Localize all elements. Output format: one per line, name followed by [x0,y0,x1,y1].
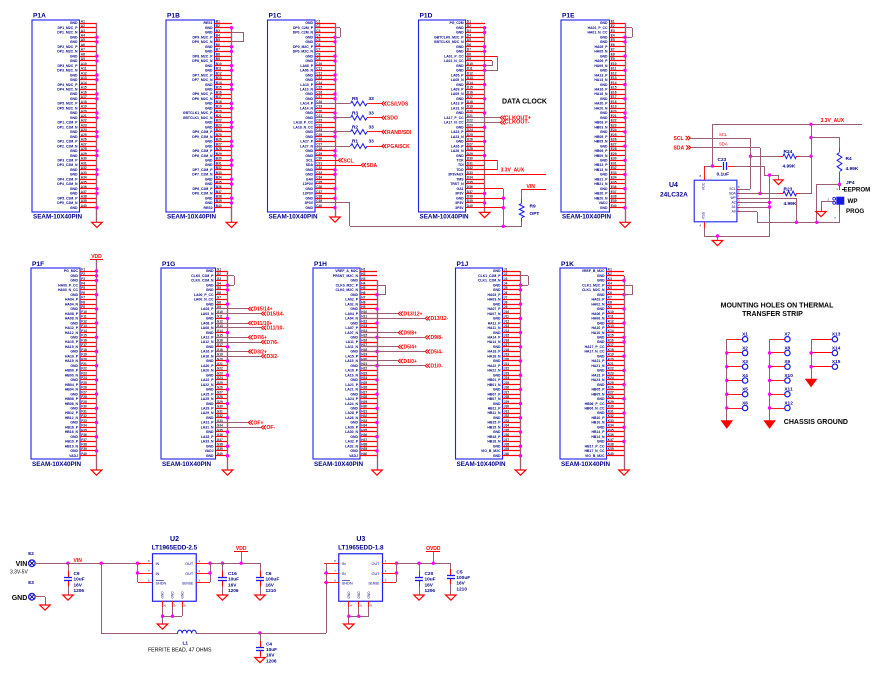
svg-text:E3: E3 [28,580,34,585]
svg-text:R23: R23 [784,187,793,193]
svg-text:VREF_B_M2C: VREF_B_M2C [582,269,605,273]
svg-text:X14: X14 [832,345,841,351]
svg-text:HA03_N: HA03_N [487,298,501,302]
svg-text:D5/4-: D5/4- [431,349,444,355]
svg-text:GND: GND [357,591,361,599]
svg-text:GBTCLK1_M2C_P: GBTCLK1_M2C_P [183,111,213,115]
svg-text:GND: GND [350,378,358,382]
terminal E2 VIN [10,551,35,576]
svg-text:HA15_N: HA15_N [65,345,79,349]
svg-text:HA08_P: HA08_P [65,312,79,316]
svg-text:D27: D27 [467,142,473,146]
svg-text:D16: D16 [467,90,473,94]
svg-text:HA01_N_CC: HA01_N_CC [587,31,608,35]
svg-text:GND: GND [205,88,213,92]
svg-text:DP4_C2M_N: DP4_C2M_N [57,182,78,186]
wire P1B ground bus [231,28,233,222]
svg-text:LA18_P_CC: LA18_P_CC [294,121,314,125]
svg-text:HB05_P: HB05_P [595,135,609,139]
svg-text:SEAM-10X40PIN: SEAM-10X40PIN [167,214,216,221]
svg-text:LA26_N: LA26_N [451,149,464,153]
connector P1G (SEAM-10X40PIN) [161,261,223,468]
node label DATA CLOCK [502,99,547,106]
wire R4 to JP4 pin 1 [839,172,841,190]
svg-text:GND: GND [70,192,78,196]
svg-text:DP2_M2C_N: DP2_M2C_N [57,50,78,54]
svg-text:HA06_N: HA06_N [591,317,605,321]
svg-text:GND: GND [305,206,313,210]
svg-text:GND: GND [305,196,313,200]
connector P1B (SEAM-10X40PIN) [166,13,222,221]
svg-text:GA1: GA1 [457,187,464,191]
connector P1D (SEAM-10X40PIN) [419,13,473,221]
svg-text:HB05_N: HB05_N [594,140,608,144]
svg-text:DP1_M2C_N: DP1_M2C_N [57,31,78,35]
junction dots VDD rail [221,562,243,565]
svg-text:GND: GND [305,59,313,63]
svg-text:LA17_N_CC: LA17_N_CC [444,121,464,125]
svg-text:GND: GND [70,293,78,297]
junction dots P1K ground bus [622,279,625,443]
svg-text:C23: C23 [718,157,727,163]
ground P1H [372,470,382,475]
chassis ground [764,421,775,429]
wire U3 input bracket (from bottom rail) [326,563,328,633]
svg-text:LA07_N: LA07_N [345,331,358,335]
svg-text:LT1965EDD-1.8: LT1965EDD-1.8 [338,545,384,552]
svg-text:DP1_C2M_P: DP1_C2M_P [57,121,78,125]
power 3.3V_AUX rail (top right) [712,118,862,125]
svg-text:HA09_P: HA09_P [595,59,609,63]
svg-text:DATA CLOCK: DATA CLOCK [502,99,547,106]
svg-text:GND: GND [305,111,313,115]
svg-text:DP0_C2M_N: DP0_C2M_N [293,31,314,35]
svg-text:HB20_P: HB20_P [595,192,609,196]
wire U4 SCL pin to SCL net [740,189,750,191]
mounting hole X11 [784,387,793,397]
node D13/12+ flag [398,311,422,317]
mounting hole X3 [742,359,748,369]
svg-text:GND: GND [70,78,78,82]
svg-text:GND: GND [70,378,78,382]
junction dot SDA/R23 [758,192,761,195]
wire C23 right to ground [734,166,779,180]
svg-text:C4: C4 [266,642,272,648]
svg-text:B31: B31 [216,161,222,165]
svg-text:H31: H31 [361,409,367,413]
wire X10 stub [770,380,785,382]
svg-text:P1J: P1J [457,261,469,268]
power VDD flag (P1F) [90,254,103,260]
svg-text:DP4_M2C_P: DP4_M2C_P [57,83,78,87]
svg-text:GND: GND [493,302,501,306]
svg-text:DP1_C2M_N: DP1_C2M_N [57,125,78,129]
svg-text:GND: GND [600,21,608,25]
svg-text:LA14_P: LA14_P [300,102,313,106]
svg-text:SDO: SDO [387,116,398,122]
svg-text:GND: GND [70,364,78,368]
wire 3P3V net P1D pins D36 D38 D40 [466,189,504,227]
svg-text:HA16_N: HA16_N [594,92,608,96]
svg-text:LA32_N: LA32_N [345,444,358,448]
mounting hole X6 [742,400,748,410]
svg-text:GND: GND [70,130,78,134]
wire U4 SDA pin to SDA net [740,193,760,195]
svg-text:HA04_N: HA04_N [65,302,79,306]
wire P1H pin stubs H1-H40 [360,272,377,456]
junction dots chassis bus X13-X15 [809,351,812,368]
wire jumper bottom net [757,184,840,223]
svg-text:G12: G12 [217,319,223,323]
svg-text:HB16_P: HB16_P [65,426,79,430]
junction dot VSS ground [716,234,719,237]
svg-text:JP4: JP4 [846,180,855,186]
svg-text:D38: D38 [467,195,473,199]
svg-text:GND: GND [600,144,608,148]
svg-text:TRANSFER STRIP: TRANSFER STRIP [742,311,803,318]
svg-text:SDA: SDA [719,142,728,147]
svg-text:GND: GND [70,187,78,191]
svg-text:GND: GND [205,178,213,182]
svg-text:3P3V: 3P3V [305,201,314,205]
svg-text:4.99K: 4.99K [784,201,797,207]
svg-text:HB13_N: HB13_N [594,168,608,172]
svg-text:G1: G1 [217,267,221,271]
ground (C4) [255,658,265,663]
svg-text:16V: 16V [425,582,434,588]
ground P1F [91,470,102,475]
wire 3.3V_AUX drop to R24/R23 [811,124,813,194]
connector P1E (SEAM-10X40PIN) [561,13,617,221]
svg-text:HA10_N: HA10_N [591,331,605,335]
capacitor C4 10uF 16V 1206 [256,633,277,664]
svg-text:VIO_B_M2C: VIO_B_M2C [585,454,605,458]
svg-text:GND: GND [597,340,605,344]
svg-text:X6: X6 [742,400,748,406]
svg-text:33: 33 [369,139,375,145]
svg-text:C6: C6 [266,571,272,577]
svg-text:10uF: 10uF [228,577,239,583]
capacitor C16 10uF 16V 1206 [218,563,239,595]
svg-text:SEAM-10X40PIN: SEAM-10X40PIN [314,461,363,468]
mounting hole X9 [784,359,790,369]
wire D15/14+ (P1G pin G9) [216,308,248,310]
svg-text:3.3V-5V: 3.3V-5V [10,570,28,576]
svg-text:J27: J27 [504,390,510,394]
wire X8 stub [770,352,785,354]
junction dot C23 ground node [768,173,771,176]
svg-text:HA02_N: HA02_N [591,302,605,306]
node D3/2+ flag [248,349,267,355]
svg-text:X7: X7 [784,332,790,338]
svg-text:GND: GND [70,59,78,63]
wire P1F pin stubs F1-F40 [80,272,96,456]
svg-text:GND: GND [206,359,214,363]
svg-text:GBTCLK0_M2C_N: GBTCLK0_M2C_N [434,40,464,44]
svg-text:GND: GND [70,392,78,396]
svg-text:WP: WP [730,196,736,200]
resistor R9 OPT [519,203,539,217]
svg-text:LA09_N: LA09_N [451,92,464,96]
svg-text:DP2_C2M_N: DP2_C2M_N [57,144,78,148]
svg-text:DP6_M2C_P: DP6_M2C_P [192,92,213,96]
svg-text:SEAM-10X40PIN: SEAM-10X40PIN [33,214,82,221]
svg-text:SDA: SDA [674,146,685,152]
svg-text:LA15_N: LA15_N [345,359,358,363]
mounting hole X8 [784,345,790,355]
wire D5/4- (P1H pin H18) [360,351,425,353]
svg-text:D15/14-: D15/14- [267,311,285,317]
wire U4 WP pin to jumper net [740,198,797,222]
capacitor C20 10uF 16V 1206 [415,563,436,595]
ground (C5) [446,595,457,600]
svg-text:D13/12+: D13/12+ [404,311,423,317]
svg-text:F8: F8 [81,300,85,304]
svg-text:K1: K1 [608,267,612,271]
svg-text:C27: C27 [316,142,322,146]
svg-text:GND: GND [205,140,213,144]
svg-text:SEAM-10X40PIN: SEAM-10X40PIN [457,461,506,468]
wire P1E pin stubs E1-E40 [610,24,625,208]
svg-text:D1/0-: D1/0- [431,364,444,370]
wire chassis bus X1-X6 [726,339,728,421]
svg-text:HB10_N: HB10_N [591,421,605,425]
svg-text:E8: E8 [611,52,615,56]
svg-text:G8: G8 [217,300,221,304]
svg-text:H8: H8 [361,300,365,304]
svg-text:GND: GND [456,64,464,68]
svg-text:SEAM-10X40PIN: SEAM-10X40PIN [162,461,211,468]
power VDD flag [234,546,248,563]
svg-text:GND: GND [350,364,358,368]
svg-text:HB16_N: HB16_N [65,430,79,434]
svg-text:DP8_C2M_N: DP8_C2M_N [192,154,213,158]
svg-text:LA31_N: LA31_N [201,426,214,430]
svg-text:GND: GND [305,149,313,153]
svg-text:HB08_P: HB08_P [65,397,79,401]
node D9/8+ flag [398,330,417,336]
wire P1J ground bus [520,271,522,470]
wire P1K ground bus [624,276,626,470]
svg-text:HB03_P: HB03_P [595,121,609,125]
svg-text:J12: J12 [504,319,510,323]
svg-text:G16: G16 [217,338,223,342]
svg-text:D9/8-: D9/8- [431,335,444,341]
svg-text:HA23_P: HA23_P [592,373,606,377]
wire CLKOUT+ [466,117,500,119]
svg-text:VDD: VDD [236,546,247,552]
wire P1J pin stubs J1-J40 [502,272,520,456]
ground (E3) [40,605,50,610]
junction dots P1J ground bus [519,284,522,458]
svg-text:GND: GND [206,416,214,420]
svg-text:R24: R24 [784,149,793,155]
svg-text:GND: GND [161,591,165,599]
svg-text:GND: GND [70,111,78,115]
svg-text:HB10_P: HB10_P [592,416,606,420]
svg-text:LA13_P: LA13_P [451,102,464,106]
junction dots P1B ground bus [230,26,233,205]
svg-text:LA20_N: LA20_N [201,369,214,373]
svg-text:D31: D31 [467,161,473,165]
node label CHASSIS GROUND [784,419,848,426]
svg-text:3.3V_AUX: 3.3V_AUX [821,118,845,124]
wire P1C loop C2-C4 [335,28,341,38]
svg-text:SCL: SCL [306,159,313,163]
svg-text:GND: GND [70,407,78,411]
svg-text:GND: GND [350,279,358,283]
svg-text:LA23_N: LA23_N [451,135,464,139]
wire X15 stub [811,366,832,368]
ground (C6) [255,595,265,600]
svg-text:GND: GND [493,444,501,448]
svg-text:LA19_N: LA19_N [345,373,358,377]
svg-text:G31: G31 [217,409,223,413]
svg-text:LA22_P: LA22_P [201,378,214,382]
svg-text:GND: GND [305,21,313,25]
wire D7/6+ (P1G pin G15) [216,337,248,339]
junction dots P1D ground bus [483,26,486,205]
svg-text:E1: E1 [611,19,615,23]
svg-text:LA30_N: LA30_N [345,430,358,434]
ground P1A [92,222,103,227]
node CLKOUT+ flag [500,115,532,121]
svg-text:HB09_N: HB09_N [594,154,608,158]
svg-text:LA06_P: LA06_P [300,64,313,68]
wire D9/8+ (P1H pin H14) [360,332,398,334]
wire X11 stub [770,394,785,396]
svg-text:HA19_P: HA19_P [65,354,79,358]
svg-text:GND: GND [597,440,605,444]
svg-text:GND: GND [350,321,358,325]
svg-text:X15: X15 [832,359,841,365]
connector P1A (SEAM-10X40PIN) [32,13,87,221]
svg-text:HA13_N: HA13_N [594,78,608,82]
wire D1/0+ (P1H pin H20) [360,360,398,362]
svg-text:GND: GND [350,350,358,354]
svg-text:LA16_P: LA16_P [201,350,214,354]
wire U4 A0 pin to jumper net [740,212,758,223]
node D5/4+ flag [398,345,417,351]
svg-text:E2: E2 [28,551,34,556]
svg-text:HB12_P: HB12_P [65,411,79,415]
svg-text:GND: GND [305,78,313,82]
mounting hole X4 [742,373,748,383]
svg-text:F27: F27 [81,390,87,394]
svg-text:D7/6-: D7/6- [267,340,280,346]
svg-text:GND: GND [206,288,214,292]
svg-text:D3/2-: D3/2- [267,354,280,360]
wire D11/10- (P1G pin G13) [216,327,261,329]
svg-text:J16: J16 [504,338,510,342]
connector P1H (SEAM-10X40PIN) [313,261,367,468]
terminal E3 GND [12,580,35,602]
svg-text:X3: X3 [742,359,748,365]
node D15/14+ flag [248,307,272,313]
svg-text:GND: GND [70,206,78,210]
svg-text:GND: GND [70,321,78,325]
svg-text:GND: GND [70,350,78,354]
ground P1B [226,222,237,227]
svg-text:X10: X10 [784,373,793,379]
mounting hole X1 [742,332,748,342]
wire 3P3V net P1C pin C39 to bottom rail [315,203,522,227]
svg-text:GND: GND [70,149,78,153]
junction dots P1C ground bus [333,36,336,210]
svg-text:GND: GND [70,135,78,139]
svg-text:SENSE: SENSE [182,582,194,586]
svg-text:HB19_P: HB19_P [65,440,79,444]
svg-text:1210: 1210 [456,586,467,592]
svg-text:IN: IN [156,572,160,576]
svg-text:F12: F12 [81,319,87,323]
svg-text:GND: GND [367,591,371,599]
ground (C23) [774,180,783,185]
svg-text:HA09_N: HA09_N [594,64,608,68]
svg-text:EEPROM: EEPROM [844,187,871,194]
svg-text:LT1965EDD-2.5: LT1965EDD-2.5 [152,545,198,552]
junction dot C4 [258,631,261,634]
svg-text:HB15_P: HB15_P [488,421,502,425]
wire OVDD rail [396,563,451,565]
svg-text:GND: GND [205,163,213,167]
svg-text:GND: GND [206,454,214,458]
svg-text:DP8_C2M_P: DP8_C2M_P [192,149,213,153]
wire D15/14- (P1G pin G10) [216,313,261,315]
svg-text:HB08_N: HB08_N [65,402,79,406]
svg-text:12P0V: 12P0V [303,182,314,186]
svg-text:HB00_N: HB00_N [65,373,79,377]
svg-text:GND: GND [597,336,605,340]
svg-text:VDD: VDD [91,254,102,260]
mounting hole X12 [784,400,793,410]
mounting hole X5 [742,387,748,397]
svg-text:IN: IN [156,562,160,566]
node D1/0- flag [425,364,443,370]
svg-text:D9/8+: D9/8+ [404,330,418,336]
resistor R5 33 [315,96,382,106]
resistor R23 4.99K [760,187,811,208]
svg-text:A16: A16 [81,90,87,94]
wire E3 to ground [35,597,46,606]
junction dot SCL/R24 [749,155,752,158]
svg-text:LA01_P_CC: LA01_P_CC [444,54,464,58]
node SDO flag [382,116,398,122]
svg-text:GND: GND [70,274,78,278]
svg-text:CLK1_C2M_N: CLK1_C2M_N [478,279,501,283]
svg-text:OUT: OUT [185,562,194,566]
svg-text:GND: GND [305,73,313,77]
svg-text:GND: GND [600,111,608,115]
svg-text:LA24_N: LA24_N [345,402,358,406]
svg-text:HA20_P: HA20_P [595,102,609,106]
svg-text:HB01_P: HB01_P [488,378,502,382]
svg-text:4.99K: 4.99K [846,166,859,172]
svg-text:DP2_C2M_P: DP2_C2M_P [57,140,78,144]
svg-text:GND: GND [350,293,358,297]
wire P1G ground bus [227,271,229,470]
ground P1K [619,470,629,475]
svg-text:E12: E12 [611,71,617,75]
svg-text:GND: GND [70,435,78,439]
connector P1C (SEAM-10X40PIN) [268,13,323,221]
wire P1K pin stubs K1-K40 [606,272,624,456]
wire VIN to R9 [521,189,523,203]
svg-text:DP5_C2M_P: DP5_C2M_P [57,196,78,200]
svg-text:GND: GND [456,125,464,129]
wire ground vertical (C23/A2/A1/VSS) [769,175,771,236]
svg-text:TCK: TCK [457,159,465,163]
